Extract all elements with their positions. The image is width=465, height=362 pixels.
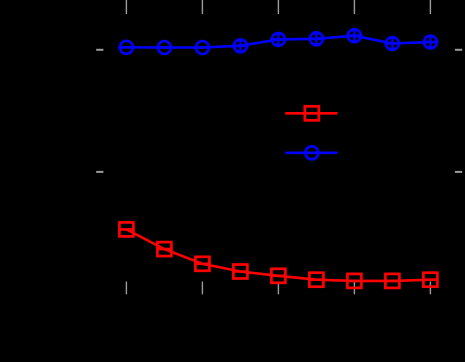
red square markers bbox=[119, 222, 437, 288]
legend blue sample line bbox=[285, 152, 337, 155]
red x-error bars bbox=[118, 229, 438, 281]
right axis ticks bbox=[455, 50, 462, 172]
blue series polyline bbox=[126, 36, 430, 48]
legend blue circle marker bbox=[305, 146, 318, 159]
top axis ticks bbox=[126, 0, 430, 14]
blue circle markers bbox=[120, 29, 437, 54]
blue x-error bars bbox=[118, 36, 438, 48]
red series polyline bbox=[126, 229, 430, 281]
legend red square marker bbox=[305, 106, 319, 120]
legend red sample line bbox=[285, 112, 337, 115]
blue y-error bars bbox=[237, 30, 433, 51]
bottom axis ticks bbox=[126, 282, 430, 295]
left axis ticks bbox=[96, 50, 103, 172]
